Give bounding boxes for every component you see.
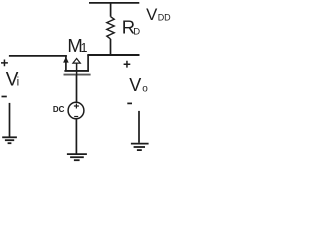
svg-text:V: V — [146, 5, 158, 24]
svg-text:1: 1 — [81, 41, 88, 55]
svg-text:i: i — [17, 76, 20, 88]
svg-text:DD: DD — [158, 13, 171, 23]
svg-text:V: V — [129, 75, 141, 95]
svg-text:D: D — [133, 26, 140, 37]
svg-text:o: o — [142, 84, 148, 95]
svg-text:DC: DC — [53, 105, 65, 114]
